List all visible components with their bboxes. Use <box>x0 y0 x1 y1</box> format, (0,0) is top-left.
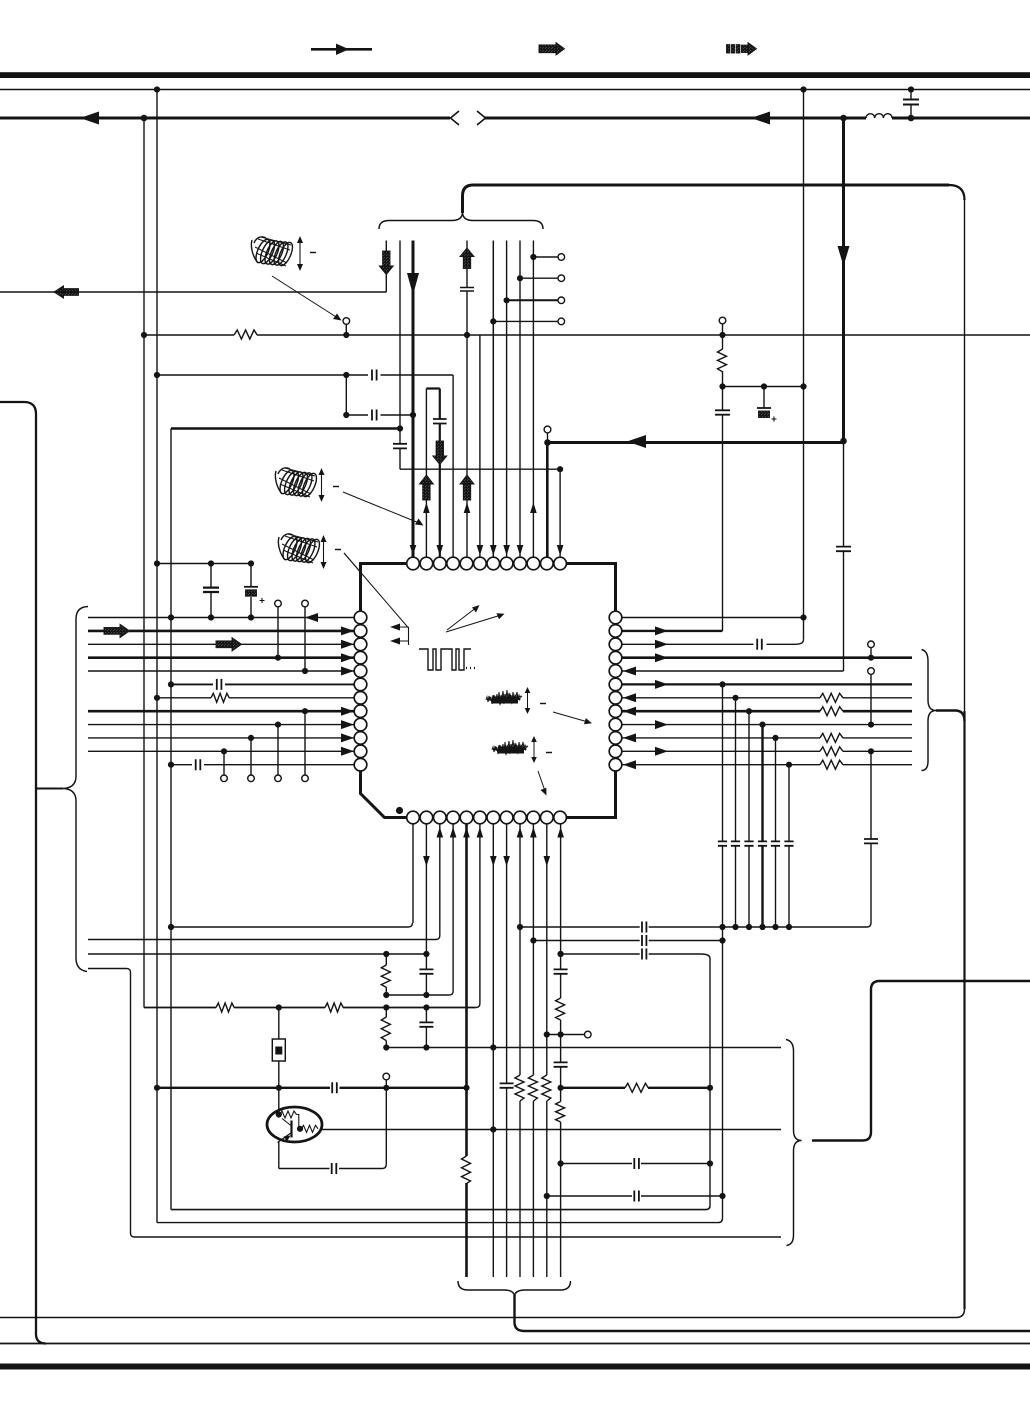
left cap feed rail y563 <box>157 563 251 565</box>
wire x386 lower link <box>385 1088 387 1164</box>
arrow down small pin6 <box>477 545 484 556</box>
IC U1 outline <box>361 564 616 818</box>
wire bus y185 thick with corners <box>463 185 950 213</box>
junction dots top wires <box>154 254 537 432</box>
IC interior waveform sketch <box>419 649 475 670</box>
wire vertical x144 <box>143 118 145 1008</box>
arrowhead row R6 <box>655 680 668 689</box>
wire brace B3 apex to rail <box>936 711 965 722</box>
wire y1034 with terminal <box>547 1031 591 1038</box>
terminal circle (493 row) <box>558 318 565 325</box>
wire row R6 y684 thick <box>622 683 912 685</box>
terminal circle (534 row) <box>558 254 565 261</box>
resistor R9 x386 <box>381 954 390 995</box>
capacitor C27 x506 <box>500 1083 514 1087</box>
wire pin9 bottom <box>519 824 521 1277</box>
left test stub x305 upper <box>304 607 306 671</box>
wire pin12 top <box>559 469 561 557</box>
arrow down small pin12 <box>557 545 564 556</box>
wire y1237 <box>135 1236 782 1238</box>
terminal circle x251 bottom <box>248 775 255 782</box>
capacitor C10 x211 <box>203 564 219 618</box>
IC bottom pin circles <box>407 811 567 824</box>
arrowhead row L9 <box>341 720 354 729</box>
wire row L10 y737 <box>88 737 354 739</box>
arrowhead row L2 <box>341 626 354 635</box>
arrowhead row L11 <box>341 747 354 756</box>
IC interior noise waveform 1 <box>486 690 522 704</box>
arrowhead left y441 <box>627 435 646 448</box>
wire row R8 y711 thick with resistor R5 <box>622 707 912 716</box>
wire y375 <box>157 374 453 376</box>
wire pin5 top <box>466 241 468 558</box>
arrowhead row R5 <box>623 667 636 676</box>
capacitor C6 y375 <box>372 370 377 381</box>
arrowhead row R4 <box>655 653 668 662</box>
IC interior noise waveform 2 <box>492 740 528 754</box>
wire y1163 with capacitor C33 <box>561 1158 710 1169</box>
coil T1 pointer line <box>272 276 342 321</box>
wire row L5 y671 <box>88 670 354 672</box>
capacitor C16 x735 <box>731 841 740 845</box>
arrow up small pin4 bottom <box>450 827 457 838</box>
wire pin12 bottom <box>560 824 562 1277</box>
coil T1 pictorial <box>251 237 295 268</box>
capacitor C18 x762 <box>758 841 767 845</box>
wire row R11 y751 with resistor R7 <box>622 747 912 756</box>
arrowhead row R12 <box>623 760 636 769</box>
wire y1047 <box>386 1047 781 1049</box>
brace B4 bottom right group <box>786 1040 802 1246</box>
terminal circle (507 row) <box>558 297 565 304</box>
arrowhead row R2 <box>655 626 668 635</box>
wire row L4 y657 thick <box>88 656 354 659</box>
wire x735 run <box>735 698 737 927</box>
arrow up small pin6 bottom <box>477 827 484 838</box>
resistor R14 x560 upper <box>556 998 565 1020</box>
arrow up small pin5 wire <box>464 503 471 514</box>
wire y415 <box>346 414 413 416</box>
wire row R5 y671 <box>622 670 844 672</box>
frame left thick <box>0 402 46 1344</box>
wire y954 left segment <box>88 953 427 955</box>
left test stub x278 lower <box>277 725 279 775</box>
wire x775 run <box>775 738 777 927</box>
arrow down small pin3 <box>437 545 444 556</box>
IC right pin circles <box>609 611 622 771</box>
wire rail y90 <box>0 89 1030 91</box>
terminal circle x305 bottom <box>302 775 309 782</box>
legend flow arrow hatched <box>539 43 565 55</box>
wire x722 cap branch <box>722 387 724 631</box>
junction dots top rails <box>141 86 915 121</box>
wire row L6 y684 with capacitor C12 <box>171 679 354 690</box>
resistor R13 x546 <box>542 1075 551 1101</box>
wire pin8 bottom <box>506 824 508 1277</box>
resistor R2 x722 <box>718 335 727 387</box>
wire pin3 bottom <box>439 824 441 936</box>
wire vertical x803 <box>803 90 805 640</box>
capacitor C20 x789 <box>784 841 793 845</box>
wire pin4 bottom <box>452 824 454 991</box>
arrowhead row R11 <box>655 747 668 756</box>
connector stub row x520 <box>520 277 558 279</box>
wire y386 <box>723 386 804 388</box>
capacitor C17 x749 <box>744 841 753 845</box>
terminal circle x278 top <box>275 600 282 607</box>
junction dots mid <box>141 332 847 446</box>
hatched arrow up x467 lower <box>460 475 474 500</box>
capacitor C2 at x400 <box>393 444 407 449</box>
wire pin7 top <box>492 241 494 558</box>
IC top pin circles <box>407 557 567 570</box>
wire bottom line A <box>0 1309 965 1318</box>
arrowhead row R8 <box>623 707 636 716</box>
arrowhead row L8 <box>341 707 354 716</box>
transistor Q1 <box>267 1088 322 1169</box>
legend flow arrow dashed-hatched <box>727 43 757 55</box>
coil T1 level arrow <box>297 236 316 271</box>
wire y469 <box>400 468 560 470</box>
noise2 level arrow <box>531 736 552 763</box>
capacitor C8 pin3 <box>433 419 447 424</box>
arrow up small pin12 bottom <box>557 827 564 838</box>
junction dots bottom networks <box>154 924 726 1199</box>
terminal circle x386 <box>383 1073 390 1088</box>
wire y335 <box>144 334 1030 336</box>
terminal circle x278 bottom <box>275 775 282 782</box>
arrow up small pin3 bottom <box>437 827 444 838</box>
connector stub row x493 <box>493 320 558 322</box>
wire brace B5 stem <box>515 1295 525 1331</box>
inductor L1 on y118 <box>866 114 892 118</box>
arrowhead left on y118 <box>80 112 99 125</box>
arrowhead row L10 <box>341 733 354 742</box>
junction dots right cascade <box>530 614 874 957</box>
wire y968 stub <box>88 969 131 973</box>
coil T3 level arrow <box>321 535 342 569</box>
wire bus y441 thick <box>548 441 844 444</box>
right rail x964 thick lower <box>963 711 965 1309</box>
arrowhead left row L1 <box>305 613 318 622</box>
arrow down small pin8 bottom <box>503 856 510 867</box>
capacitor C11 electrolytic x251 <box>244 564 265 618</box>
wire pin1 bottom <box>412 824 414 923</box>
junction dot pin9 y927 <box>517 924 523 930</box>
wire row L7 y697 with resistor R3 <box>157 693 354 702</box>
wire y1209 <box>171 1206 710 1210</box>
wire thick pin11 top <box>546 443 549 558</box>
wire pin6 top <box>479 335 481 557</box>
wire row L3 y644 <box>88 643 354 645</box>
arrow up small pin9 bottom <box>517 827 524 838</box>
arrow down big x413 <box>407 273 419 295</box>
wire y981 thick from right edge <box>871 981 1030 990</box>
arrowhead left on y118 right <box>751 112 770 125</box>
wire row R9 y724 <box>622 724 912 726</box>
wire bottom line C <box>0 1343 1030 1345</box>
hatched arrow up x467 upper <box>460 248 474 269</box>
arrowhead row L3 <box>341 640 354 649</box>
wire row L12 y764 with capacitor C13 <box>171 759 354 770</box>
wire pin6 bottom <box>476 824 480 1008</box>
arrow up small pin5 bottom <box>463 827 470 838</box>
resistor R10 x466 <box>462 1156 471 1184</box>
node terminal circle x547 <box>544 426 551 442</box>
capacitor C1 at x911 <box>903 90 919 119</box>
hatched arrow down pin3 <box>433 441 447 465</box>
arrow up small pin10 wire <box>530 503 537 514</box>
resistor R1 y335 <box>234 330 257 339</box>
brace B1 over IC top wires <box>379 212 543 229</box>
connector stub row x534 <box>533 256 558 258</box>
wire pin2 top <box>425 389 427 558</box>
capacitor C5 x843 <box>836 547 851 552</box>
capacitor C30 x426 lower <box>419 1008 433 1048</box>
left test stub x251 lower <box>250 738 252 775</box>
wire row R4 y657 thick <box>622 656 912 659</box>
wire row R2 y630 thick <box>622 630 723 632</box>
hatched arrow row L2 <box>104 624 130 637</box>
IC interior pointer arrows up-right <box>446 605 505 632</box>
wire row L1 y617 <box>88 617 354 619</box>
wire row R3 y644 with capacitor C14 <box>622 639 804 650</box>
node terminal circle x722 <box>719 317 726 335</box>
wire y1196 with capacitor C34 <box>547 1191 723 1202</box>
terminal circle x871 row R5 <box>868 668 875 675</box>
coil T2 pictorial <box>275 468 319 499</box>
arrow down small pin11 bottom <box>544 856 551 867</box>
arrow down small pin8 <box>503 545 510 556</box>
wire y1140 to brace B4 <box>812 1139 863 1141</box>
coil T2 level arrow <box>319 468 340 502</box>
coil T3 pictorial <box>278 534 322 565</box>
arrow down small x413 pin1 <box>410 545 417 556</box>
terminal circle (520 row) <box>558 275 565 282</box>
wire row L9 y724 <box>88 724 354 726</box>
wire bus y118 with break <box>0 111 1030 125</box>
resistor R11 x520 <box>515 1075 524 1101</box>
wire row L8 y711 thick <box>88 710 354 713</box>
wire vertical x171 <box>170 429 172 1210</box>
arrow up small pin2 wire <box>423 503 430 514</box>
wire y995 <box>386 991 453 995</box>
wire x789 run <box>788 765 790 927</box>
wire bottom line B thick <box>524 1330 1030 1332</box>
wire x130 run <box>131 973 135 1238</box>
wire pin2 bottom <box>425 824 427 995</box>
wire row R1 y617 <box>622 617 804 619</box>
brace B3 right group <box>922 650 937 771</box>
junction dots y563 <box>154 560 254 566</box>
wire x871 thick down <box>863 990 872 1141</box>
wire pin3 top thick <box>426 389 439 558</box>
capacitor C29 x560 <box>554 1062 568 1066</box>
wire row L11 y751 <box>88 750 354 752</box>
capacitor C21 x871 <box>864 839 878 843</box>
IC interior pointer to bottom pins <box>538 771 547 796</box>
capacitor C28 x560 <box>554 969 568 973</box>
brace B5 bottom pins group <box>458 1281 571 1297</box>
arrow down small pin9 <box>517 545 524 556</box>
left test stub x278 upper <box>277 607 279 658</box>
wire stub x386 top <box>385 241 387 293</box>
wire pin10 top <box>532 241 534 558</box>
fuse F1 x278 <box>272 1008 285 1088</box>
IC interior pointer arrows left <box>390 624 409 646</box>
arrow down small pin7 <box>490 545 497 556</box>
junction dots left bus <box>154 614 308 767</box>
wire y292 <box>0 291 386 293</box>
arrowhead row R9 <box>655 720 668 729</box>
wire pin7 bottom <box>492 824 494 1277</box>
wire y1222 <box>157 1218 723 1223</box>
wire x871 test run <box>870 674 872 922</box>
wire y1129 long <box>322 1129 782 1131</box>
resistor R18 x386 lower <box>381 1008 390 1048</box>
legend flow arrow solid <box>311 44 372 55</box>
wire row R10 y737 with resistor R6 <box>622 733 912 742</box>
wire vertical x157 <box>156 90 158 1223</box>
coil T2 pointer line <box>343 492 424 526</box>
wire stub x400 <box>399 241 401 470</box>
terminal circle x871 row R4 <box>868 641 875 658</box>
terminal circle x224 bottom <box>221 775 228 782</box>
wire x762 run thick <box>761 725 763 927</box>
capacitor C26 x426 <box>419 969 433 973</box>
connector stub row x507 thick <box>507 299 558 301</box>
node terminal circle x346 <box>343 318 350 335</box>
capacitor C15 x722 <box>718 841 727 845</box>
wire pin11 bottom <box>546 824 548 1277</box>
arrowhead row R10 <box>623 733 636 742</box>
wire pin4 top <box>452 375 454 557</box>
resistor R12 x533 <box>528 1075 537 1101</box>
resistor R15 x560 lower <box>556 1102 565 1123</box>
hatched arrow row L3 <box>216 638 242 651</box>
wire x710 run <box>709 959 711 1206</box>
left test stub x224 lower <box>223 751 225 775</box>
arrowhead row L4 <box>341 653 354 662</box>
IC U1 pin1 index dot <box>396 807 403 814</box>
wire y927 right segment with capacitor C35 <box>520 922 871 933</box>
arrowhead row R3 <box>655 640 668 649</box>
wire y954 right segment with capacitors C24 C25 <box>561 949 710 960</box>
arrow down small pin7 bottom <box>490 856 497 867</box>
capacitor C9 x467 <box>460 288 474 292</box>
wire y1168 with capacitor C32 <box>279 1163 387 1174</box>
wire thick x413 <box>412 241 415 558</box>
wire row R12 y764 with resistor R8 <box>622 760 912 769</box>
wire x843 lower thin <box>843 441 845 671</box>
wire corner y185 to right rail <box>949 185 965 200</box>
brace B2 left group <box>62 607 88 972</box>
coil T3 pointer line into IC <box>344 553 409 628</box>
wire pin10 bottom <box>532 824 534 1277</box>
hatched arrow down x386 <box>379 251 393 275</box>
bus bar bottom <box>0 1364 1030 1370</box>
terminal circle x305 top <box>302 600 309 607</box>
capacitor C7 y415 <box>372 410 377 421</box>
wire y940 right segment with capacitors C22 C23 <box>533 935 722 946</box>
arrow down small pin2 bottom <box>423 856 430 867</box>
wire x722 lower run <box>722 684 724 1218</box>
wire row R7 y697 with resistor R4 <box>622 693 912 702</box>
noise1 level arrow <box>525 687 546 714</box>
wire y927 left segment <box>171 923 412 927</box>
bus bar top <box>0 72 1030 78</box>
left test stub x305 lower <box>304 711 306 775</box>
wire y939 left segment <box>88 936 440 940</box>
capacitor C19 x775 <box>771 841 780 845</box>
arrowhead row R7 <box>623 693 636 702</box>
capacitor C3 x722 <box>715 410 730 414</box>
right rail x964 thin upper <box>964 200 966 711</box>
wire thick y428 <box>171 427 400 429</box>
wire x346 link <box>345 375 347 415</box>
wire y1007 with resistors R16 R17 <box>144 1003 476 1012</box>
arrow up small pin10 bottom <box>530 827 537 838</box>
arrowhead row L5 <box>341 667 354 676</box>
wire thick x843 top <box>842 118 845 441</box>
wire row L2 y630 thick <box>88 630 354 633</box>
IC interior pointer to right pins <box>553 712 592 724</box>
brace B2 apex link to frame <box>37 788 63 790</box>
junction dot y469 <box>557 466 563 472</box>
coil T3 pointer line inner part <box>344 553 409 628</box>
wire y1087 thick left with capacitor C31 <box>157 1082 467 1093</box>
hatched arrow left y292 <box>54 286 79 298</box>
IC left pin circles <box>354 611 367 771</box>
capacitor C4 electrolytic x764 <box>757 387 777 422</box>
wire y1087 right with resistor R19 <box>561 1083 710 1092</box>
hatched arrow up pin2 <box>419 475 433 500</box>
wire x749 run <box>748 711 750 927</box>
wire pin5 bottom thick <box>465 824 468 1277</box>
wire pin9 top <box>519 241 521 558</box>
arrow down big x843 <box>838 246 850 266</box>
wire pin8 top <box>506 241 508 558</box>
